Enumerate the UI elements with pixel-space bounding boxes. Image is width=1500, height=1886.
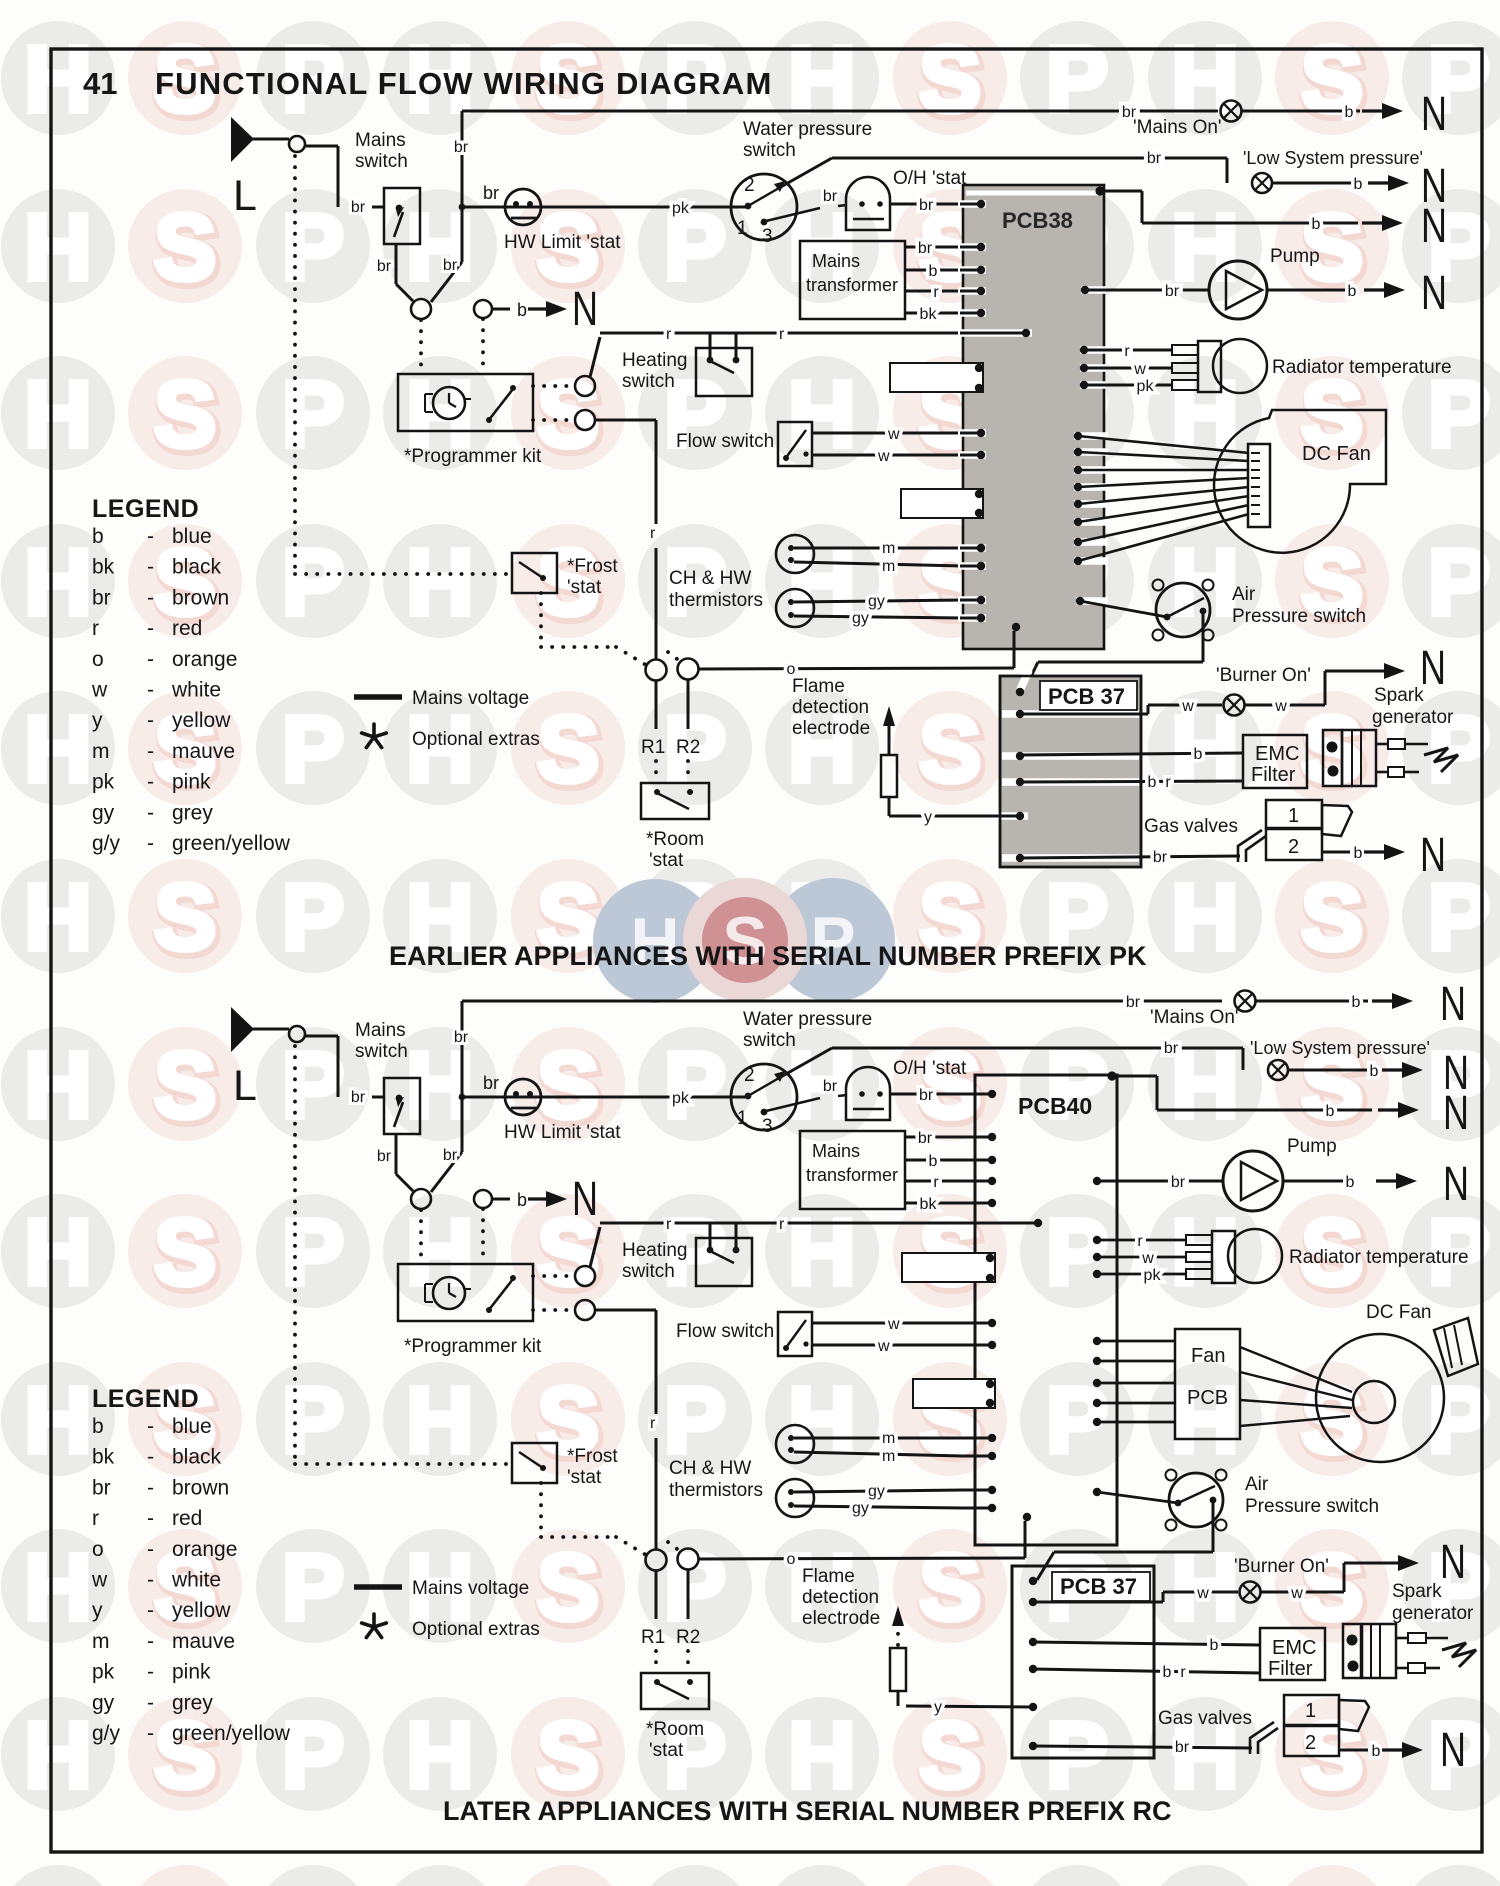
svg-text:b: b (1326, 1103, 1335, 1120)
svg-text:H: H (788, 27, 855, 131)
svg-text:H: H (24, 27, 91, 131)
svg-text:PCB40: PCB40 (1018, 1093, 1092, 1119)
svg-text:br: br (1165, 283, 1180, 300)
svg-text:S: S (919, 27, 981, 131)
svg-text:w: w (1181, 698, 1194, 715)
svg-text:'Mains On': 'Mains On' (1133, 117, 1222, 138)
svg-text:H: H (24, 530, 91, 634)
svg-text:b: b (1210, 1637, 1219, 1654)
svg-text:P: P (282, 1535, 344, 1639)
svg-text:N: N (1421, 267, 1447, 320)
svg-text:Spark: Spark (1374, 685, 1424, 706)
svg-text:S: S (154, 1871, 216, 1886)
svg-text:S: S (1301, 865, 1363, 969)
svg-text:Pump: Pump (1287, 1136, 1337, 1157)
svg-text:H: H (24, 697, 91, 801)
svg-text:y: y (934, 1699, 942, 1716)
svg-text:'Low System pressure': 'Low System pressure' (1250, 1038, 1430, 1058)
svg-text:r: r (1137, 1233, 1143, 1250)
svg-text:PCB 37: PCB 37 (1048, 684, 1125, 709)
svg-text:H: H (406, 1033, 473, 1137)
svg-text:b: b (1194, 746, 1203, 763)
svg-text:PCB: PCB (1187, 1387, 1228, 1409)
svg-text:'Burner On': 'Burner On' (1234, 1556, 1329, 1577)
svg-text:b: b (1352, 994, 1361, 1011)
svg-text:S: S (919, 1535, 981, 1639)
svg-text:H: H (1171, 1871, 1238, 1886)
svg-text:Spark: Spark (1392, 1581, 1442, 1602)
svg-text:P: P (664, 1368, 726, 1472)
svg-text:H: H (788, 1871, 855, 1886)
svg-text:P: P (1046, 1703, 1108, 1807)
svg-text:Pump: Pump (1270, 246, 1320, 267)
svg-text:pk: pk (1137, 378, 1155, 395)
svg-text:N: N (1440, 978, 1466, 1031)
svg-text:N: N (1440, 1536, 1466, 1589)
svg-text:'Mains On': 'Mains On' (1150, 1007, 1239, 1028)
svg-text:S: S (154, 865, 216, 969)
svg-text:r: r (1124, 343, 1130, 360)
svg-text:P: P (282, 697, 344, 801)
svg-text:DC Fan: DC Fan (1302, 443, 1371, 465)
svg-text:Pressure switch: Pressure switch (1232, 606, 1366, 627)
svg-text:br: br (1153, 849, 1168, 866)
svg-text:br: br (1164, 1040, 1179, 1057)
svg-text:H: H (788, 530, 855, 634)
svg-text:H: H (788, 1200, 855, 1304)
svg-text:H: H (406, 1871, 473, 1886)
svg-text:H: H (788, 1368, 855, 1472)
svg-text:N: N (1443, 1087, 1469, 1140)
svg-text:H: H (24, 1535, 91, 1639)
svg-text:pk: pk (1144, 1267, 1162, 1284)
svg-text:b: b (1345, 104, 1354, 121)
svg-text:LATER APPLIANCES WITH SERIAL N: LATER APPLIANCES WITH SERIAL NUMBER PREF… (443, 1796, 1172, 1826)
svg-text:2: 2 (1305, 1732, 1316, 1754)
svg-text:S: S (154, 1033, 216, 1137)
svg-text:DC Fan: DC Fan (1366, 1302, 1431, 1323)
svg-text:b: b (1370, 1063, 1379, 1080)
svg-text:b: b (1354, 845, 1363, 862)
svg-text:br: br (1171, 1174, 1186, 1191)
svg-text:FUNCTIONAL FLOW WIRING DIAGRAM: FUNCTIONAL FLOW WIRING DIAGRAM (155, 66, 772, 101)
svg-text:H: H (24, 1033, 91, 1137)
svg-text:S: S (919, 1703, 981, 1807)
svg-text:Gas valves: Gas valves (1158, 1708, 1252, 1729)
svg-text:S: S (1301, 27, 1363, 131)
svg-text:Radiator temperature: Radiator temperature (1289, 1247, 1469, 1268)
svg-text:H: H (24, 195, 91, 299)
svg-text:N: N (1421, 88, 1447, 141)
svg-text:H: H (1171, 1368, 1238, 1472)
svg-text:b: b (1372, 1743, 1381, 1760)
svg-text:N: N (1440, 1724, 1466, 1777)
svg-text:P: P (282, 865, 344, 969)
svg-text:P: P (282, 1368, 344, 1472)
svg-text:br: br (1175, 1739, 1190, 1756)
svg-text:H: H (406, 530, 473, 634)
svg-text:EMC: EMC (1272, 1637, 1316, 1659)
svg-text:EMC: EMC (1255, 743, 1299, 765)
svg-text:Pressure switch: Pressure switch (1245, 1496, 1379, 1517)
svg-text:H: H (24, 1200, 91, 1304)
svg-text:P: P (282, 362, 344, 466)
svg-text:generator: generator (1392, 1603, 1474, 1624)
svg-text:P: P (1046, 1871, 1108, 1886)
svg-text:S: S (154, 362, 216, 466)
svg-text:H: H (1171, 195, 1238, 299)
svg-text:H: H (1171, 865, 1238, 969)
svg-text:H: H (24, 1703, 91, 1807)
svg-text:1: 1 (1305, 1700, 1316, 1722)
svg-text:w: w (1141, 1250, 1154, 1267)
svg-text:P: P (282, 1703, 344, 1807)
svg-text:2: 2 (1288, 836, 1299, 858)
svg-text:PCB 37: PCB 37 (1060, 1574, 1137, 1599)
svg-text:Air: Air (1232, 584, 1256, 605)
svg-text:detection: detection (802, 1587, 879, 1608)
svg-text:S: S (919, 1871, 981, 1886)
svg-text:br: br (1147, 150, 1162, 167)
svg-text:H: H (24, 865, 91, 969)
svg-text:H: H (24, 362, 91, 466)
svg-text:r: r (1165, 774, 1171, 791)
svg-text:S: S (537, 1703, 599, 1807)
svg-text:w: w (1196, 1585, 1209, 1602)
svg-text:PCB38: PCB38 (1002, 208, 1073, 233)
svg-text:b: b (1312, 216, 1321, 233)
svg-text:generator: generator (1372, 707, 1454, 728)
svg-text:w: w (1133, 361, 1146, 378)
svg-text:P: P (664, 1871, 726, 1886)
svg-text:'Burner On': 'Burner On' (1216, 665, 1311, 686)
svg-text:Fan: Fan (1191, 1345, 1225, 1367)
svg-text:S: S (537, 1871, 599, 1886)
svg-text:r: r (1180, 1664, 1186, 1681)
svg-text:H: H (1171, 27, 1238, 131)
svg-text:N: N (1421, 200, 1447, 253)
svg-text:P: P (1046, 27, 1108, 131)
svg-text:Gas valves: Gas valves (1144, 816, 1238, 837)
svg-text:S: S (154, 195, 216, 299)
svg-text:'Low System pressure': 'Low System pressure' (1243, 148, 1423, 168)
svg-text:Filter: Filter (1251, 764, 1296, 786)
svg-text:S: S (154, 1200, 216, 1304)
svg-text:b: b (1148, 774, 1157, 791)
svg-text:P: P (664, 1033, 726, 1137)
svg-text:Radiator temperature: Radiator temperature (1272, 357, 1452, 378)
svg-text:H: H (24, 1368, 91, 1472)
svg-text:H: H (24, 1871, 91, 1886)
svg-text:Filter: Filter (1268, 1658, 1313, 1680)
svg-text:N: N (1443, 1158, 1469, 1211)
svg-text:S: S (537, 1535, 599, 1639)
svg-text:S: S (919, 697, 981, 801)
svg-text:P: P (282, 1033, 344, 1137)
svg-text:P: P (282, 1871, 344, 1886)
svg-text:P: P (1046, 1200, 1108, 1304)
svg-text:electrode: electrode (802, 1608, 880, 1629)
svg-text:y: y (924, 809, 932, 826)
svg-text:H: H (788, 362, 855, 466)
svg-text:b: b (1163, 1664, 1172, 1681)
svg-text:Flame: Flame (792, 676, 845, 697)
svg-text:S: S (537, 697, 599, 801)
svg-text:S: S (154, 1703, 216, 1807)
svg-text:H: H (406, 195, 473, 299)
svg-text:P: P (282, 1200, 344, 1304)
svg-text:electrode: electrode (792, 718, 870, 739)
svg-text:w: w (1290, 1585, 1303, 1602)
svg-text:P: P (1428, 1871, 1490, 1886)
svg-text:b: b (1348, 283, 1357, 300)
svg-text:w: w (1274, 698, 1287, 715)
svg-text:1: 1 (1288, 805, 1299, 827)
svg-text:detection: detection (792, 697, 869, 718)
svg-text:H: H (406, 1368, 473, 1472)
svg-text:EARLIER APPLIANCES WITH SERIAL: EARLIER APPLIANCES WITH SERIAL NUMBER PR… (389, 941, 1147, 971)
svg-text:b: b (1354, 176, 1363, 193)
svg-text:41: 41 (83, 66, 117, 101)
svg-text:Air: Air (1245, 1474, 1269, 1495)
svg-text:N: N (1420, 642, 1446, 695)
svg-text:P: P (282, 195, 344, 299)
svg-text:b: b (1346, 1174, 1355, 1191)
svg-text:H: H (406, 1703, 473, 1807)
svg-text:N: N (1420, 829, 1446, 882)
svg-text:br: br (1126, 994, 1141, 1011)
svg-text:S: S (1301, 1871, 1363, 1886)
svg-text:P: P (282, 530, 344, 634)
svg-text:H: H (788, 1703, 855, 1807)
svg-text:Flame: Flame (802, 1566, 855, 1587)
svg-text:o: o (787, 1551, 796, 1568)
svg-text:o: o (787, 661, 796, 678)
